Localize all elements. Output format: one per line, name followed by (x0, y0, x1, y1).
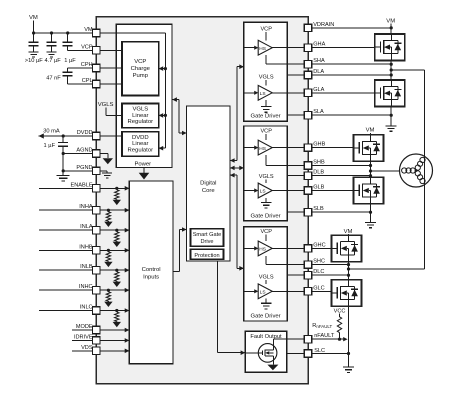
svg-text:GLC: GLC (313, 285, 325, 291)
svg-text:SHC: SHC (313, 259, 325, 265)
svg-text:LS: LS (260, 290, 266, 296)
svg-text:VGLS: VGLS (259, 74, 274, 80)
svg-text:Gate Driver: Gate Driver (251, 314, 281, 320)
svg-text:DLB: DLB (313, 170, 324, 176)
svg-text:VDS: VDS (81, 345, 93, 351)
svg-text:DVDD: DVDD (77, 130, 93, 136)
svg-text:VCP: VCP (134, 59, 146, 65)
svg-text:Regulator: Regulator (128, 119, 154, 125)
svg-text:INHB: INHB (79, 244, 93, 250)
svg-text:INHA: INHA (79, 204, 93, 210)
svg-text:VM: VM (84, 27, 93, 33)
svg-text:RnFAULT: RnFAULT (312, 323, 332, 329)
svg-text:VCP: VCP (260, 128, 272, 134)
svg-text:1 µF: 1 µF (44, 143, 56, 149)
svg-text:nFAULT: nFAULT (314, 333, 335, 339)
svg-text:LS: LS (260, 91, 266, 97)
svg-text:30 mA: 30 mA (43, 128, 60, 134)
svg-text:HS: HS (259, 146, 266, 152)
svg-text:SLA: SLA (313, 109, 324, 115)
svg-text:IDRIVE: IDRIVE (74, 334, 93, 340)
svg-text:Charge: Charge (131, 66, 151, 72)
svg-text:GHC: GHC (313, 242, 325, 248)
svg-text:4.7 µF: 4.7 µF (44, 58, 61, 64)
svg-text:SHA: SHA (313, 58, 325, 64)
svg-text:DLA: DLA (313, 69, 324, 75)
svg-text:47 nF: 47 nF (46, 76, 61, 82)
svg-text:Gate Driver: Gate Driver (251, 114, 281, 120)
svg-text:LS: LS (260, 189, 266, 195)
svg-text:VGLS: VGLS (259, 275, 274, 281)
svg-text:DVDD: DVDD (132, 135, 149, 141)
svg-text:INLA: INLA (80, 224, 93, 230)
svg-text:INHC: INHC (79, 284, 93, 290)
svg-text:VM: VM (386, 18, 395, 24)
svg-text:Core: Core (202, 188, 215, 194)
svg-text:ENABLE: ENABLE (71, 182, 93, 188)
svg-text:Gate Driver: Gate Driver (251, 213, 281, 219)
svg-text:Drive: Drive (200, 239, 213, 245)
svg-text:VCP: VCP (81, 44, 93, 50)
svg-text:SLB: SLB (313, 206, 324, 212)
svg-text:GLA: GLA (313, 87, 324, 93)
svg-text:Regulator: Regulator (128, 148, 154, 154)
svg-text:Inputs: Inputs (143, 275, 159, 281)
svg-text:MODE: MODE (76, 324, 93, 330)
svg-text:DLC: DLC (313, 269, 324, 275)
svg-text:Linear: Linear (132, 141, 148, 147)
svg-text:CPL: CPL (82, 78, 93, 84)
svg-text:Digital: Digital (200, 181, 216, 187)
svg-text:HS: HS (259, 247, 266, 253)
svg-text:Smart Gate: Smart Gate (193, 232, 222, 238)
svg-text:Control: Control (142, 267, 161, 273)
svg-text:VCP: VCP (260, 229, 272, 235)
svg-text:INLB: INLB (80, 264, 93, 270)
svg-text:SLC: SLC (314, 348, 325, 354)
svg-text:Pump: Pump (133, 73, 149, 79)
svg-text:CPH: CPH (81, 62, 93, 68)
svg-text:VCP: VCP (260, 27, 272, 33)
svg-text:1 µF: 1 µF (64, 58, 76, 64)
svg-text:AGND: AGND (76, 148, 92, 154)
svg-text:INLC: INLC (80, 305, 93, 311)
svg-text:>10 µF: >10 µF (25, 58, 44, 64)
svg-text:GHB: GHB (313, 142, 325, 148)
svg-text:VGLS: VGLS (132, 107, 148, 113)
svg-text:GLB: GLB (313, 185, 324, 191)
svg-text:PGND: PGND (76, 165, 92, 171)
svg-text:Linear: Linear (132, 113, 148, 119)
svg-text:VM: VM (29, 15, 38, 21)
svg-text:VM: VM (366, 128, 375, 134)
svg-text:HS: HS (259, 46, 266, 52)
svg-text:VDRAIN: VDRAIN (313, 22, 334, 28)
svg-text:GHA: GHA (313, 42, 325, 48)
svg-text:Protection: Protection (194, 253, 219, 259)
svg-text:VGLS: VGLS (259, 174, 274, 180)
svg-text:VGLS: VGLS (98, 102, 114, 108)
svg-text:Power: Power (134, 161, 151, 167)
svg-text:SHB: SHB (313, 160, 325, 166)
